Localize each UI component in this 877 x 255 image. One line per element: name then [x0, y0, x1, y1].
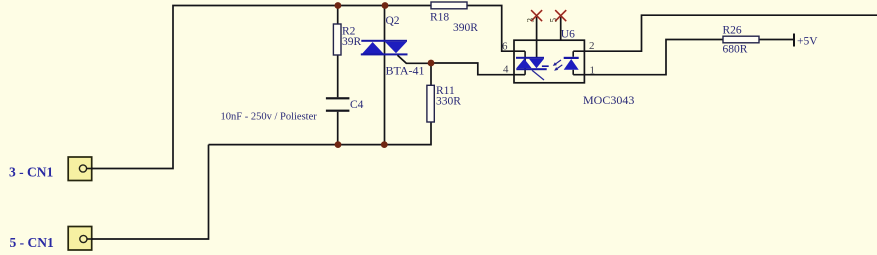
wire R2/C4 branch vertical: [337, 6, 339, 145]
svg-text:3 - CN1: 3 - CN1: [9, 165, 53, 180]
svg-text:390R: 390R: [453, 22, 478, 34]
wire R18 right lead to U6 pin 6: [467, 6, 514, 52]
connector 5-CN1: [68, 227, 92, 251]
connector 3-CN1: [68, 157, 92, 181]
resistor R2: [333, 24, 341, 55]
wire Q2 gate / R11 node to U6 pin 4: [431, 63, 514, 75]
junction dot top rail / Q2: [382, 2, 389, 9]
wire R11 node vertical: [430, 63, 432, 85]
junction dot bottom rail / C4: [335, 141, 342, 148]
svg-text:C4: C4: [350, 99, 364, 111]
svg-text:330R: 330R: [436, 96, 461, 108]
junction dot gate / R11: [428, 60, 435, 67]
svg-text:U6: U6: [561, 29, 575, 41]
svg-text:5: 5: [548, 18, 558, 23]
wire Q2 branch vertical: [384, 6, 386, 145]
triac Q2: [361, 40, 431, 64]
power +5V: [793, 34, 795, 47]
svg-text:R26: R26: [723, 25, 742, 37]
svg-text:6: 6: [502, 41, 508, 53]
U6 inner photo-triac: [514, 51, 549, 80]
U6 pin 5 stub (no connect): [560, 16, 562, 41]
junction dot bottom rail / Q2: [381, 141, 388, 148]
svg-text:MOC3043: MOC3043: [583, 93, 634, 107]
svg-text:R18: R18: [430, 12, 449, 24]
svg-text:10nF - 250v / Poliester: 10nF - 250v / Poliester: [221, 112, 318, 123]
junction dot top rail / R2: [335, 2, 342, 9]
no-connect X pin 5: [555, 10, 566, 21]
wire 3-CN1 to top-left rail: [87, 6, 432, 169]
light arrows: [553, 60, 563, 71]
wire U6 pin 1 to R26: [584, 40, 723, 75]
U6 LED: [564, 51, 585, 74]
wire 5-CN1 pin stub: [87, 238, 93, 240]
svg-text:Q2: Q2: [386, 15, 400, 27]
resistor R26: [723, 36, 759, 43]
svg-text:4: 4: [503, 64, 509, 76]
optocoupler U6 box: [514, 40, 584, 83]
wire U6 pin 2 to top-right rail: [584, 15, 877, 51]
svg-text:39R: 39R: [342, 36, 362, 48]
svg-text:680R: 680R: [723, 44, 748, 56]
svg-text:3: 3: [526, 18, 536, 23]
svg-text:2: 2: [589, 40, 595, 52]
svg-text:BTA-41: BTA-41: [386, 63, 425, 77]
resistor R11: [427, 85, 434, 122]
svg-text:+5V: +5V: [797, 36, 818, 48]
no-connect X pin 3: [531, 10, 542, 21]
wire R26 to +5V: [759, 39, 794, 41]
capacitor C4: [326, 97, 350, 99]
U6 pin 3 stub (no connect): [536, 16, 538, 57]
wire 3-CN1 pin stub: [87, 168, 94, 170]
resistor R18: [431, 2, 467, 9]
svg-text:5 - CN1: 5 - CN1: [10, 235, 54, 250]
svg-text:1: 1: [590, 65, 596, 77]
wire 5-CN1 to bottom rail: [87, 145, 209, 239]
wire bottom rail: [209, 122, 432, 145]
